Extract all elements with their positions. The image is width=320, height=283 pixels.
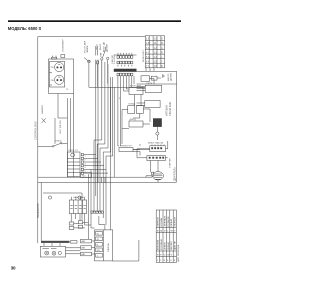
svg-text:6 R: 6 R xyxy=(146,60,150,63)
svg-text:ГОЛУБОЙ: ГОЛУБОЙ xyxy=(167,216,170,226)
svg-text:ПАНЕЛЬ: ПАНЕЛЬ xyxy=(107,242,110,252)
svg-text:ДИОД: ДИОД xyxy=(130,119,137,121)
svg-text:МОДЕЛЬ: 6500 S: МОДЕЛЬ: 6500 S xyxy=(8,26,42,31)
svg-text:Br: Br xyxy=(160,230,162,233)
svg-text:1 B: 1 B xyxy=(146,38,150,41)
svg-text:W: W xyxy=(171,231,173,233)
svg-text:ЧЕРНЫЙ: ЧЕРНЫЙ xyxy=(157,217,160,226)
svg-text:VOLT METER: VOLT METER xyxy=(60,120,62,134)
svg-text:30: 30 xyxy=(11,265,16,270)
svg-text:ОРАНЖ.: ОРАНЖ. xyxy=(163,241,166,250)
svg-text:КОРИЧН.: КОРИЧН. xyxy=(161,217,163,227)
svg-text:Gr: Gr xyxy=(167,253,170,256)
svg-text:РЕЛЕ: РЕЛЕ xyxy=(147,83,153,85)
svg-text:ФИОЛЕТ.: ФИОЛЕТ. xyxy=(170,241,173,250)
svg-text:ДВИГАТЕЛЬ: ДВИГАТЕЛЬ xyxy=(174,167,177,181)
svg-text:СВЕЧА ЗАЖ.: СВЕЧА ЗАЖ. xyxy=(169,101,172,116)
svg-text:ДАТЧИК: ДАТЧИК xyxy=(170,72,173,81)
svg-text:ЗЕЛЕНЫЙ: ЗЕЛЕНЫЙ xyxy=(163,216,166,227)
svg-text:ЦВЕТ ПР.: ЦВЕТ ПР. xyxy=(175,240,177,250)
svg-text:РЕЛЕ СТ.: РЕЛЕ СТ. xyxy=(69,150,79,152)
svg-text:ВОЛЬТМЕТР: ВОЛЬТМЕТР xyxy=(62,38,64,51)
svg-text:ВЫКЛ. МАСЛА: ВЫКЛ. МАСЛА xyxy=(148,142,163,145)
svg-text:ГЕНЕРАТОР: ГЕНЕРАТОР xyxy=(36,203,40,218)
svg-text:СТАРТЕР: СТАРТЕР xyxy=(168,158,171,168)
svg-text:БЕЛЫЙ: БЕЛЫЙ xyxy=(170,219,173,227)
svg-text:ОБМОТКА: ОБМОТКА xyxy=(73,196,84,199)
svg-text:5: 5 xyxy=(85,171,86,173)
svg-text:3: 3 xyxy=(85,163,86,165)
svg-text:КЛЮЧ: КЛЮЧ xyxy=(55,141,62,143)
svg-text:2 Br: 2 Br xyxy=(146,42,151,45)
svg-text:ЛАМПА: ЛАМПА xyxy=(86,45,89,53)
svg-text:ВЫКЛ.: ВЫКЛ. xyxy=(100,43,102,50)
svg-text:R: R xyxy=(161,51,163,54)
svg-text:КОНД.: КОНД. xyxy=(129,104,136,106)
svg-text:3 G: 3 G xyxy=(146,47,150,50)
svg-text:Ф2: Ф2 xyxy=(97,238,100,241)
svg-text:5 W: 5 W xyxy=(146,56,151,59)
svg-text:Ф1: Ф1 xyxy=(97,233,100,236)
svg-text:З.Ж.СИН.: З.Ж.СИН. xyxy=(114,55,116,64)
svg-text:CONTROL BOX: CONTROL BOX xyxy=(34,121,38,140)
svg-text:РЕЗИСТОР: РЕЗИСТОР xyxy=(120,146,132,148)
svg-text:БЛОК КОНТ.: БЛОК КОНТ. xyxy=(143,49,145,62)
svg-text:АВТ.: АВТ. xyxy=(82,253,87,256)
svg-text:ЗАЗЕМЛ.: ЗАЗЕМЛ. xyxy=(41,104,44,114)
svg-text:G: G xyxy=(161,47,163,50)
svg-text:7 Y: 7 Y xyxy=(146,65,150,68)
svg-text:АВТ.: АВТ. xyxy=(82,247,87,250)
svg-text:ЦВЕТ ПРОВОДОВ: ЦВЕТ ПРОВОДОВ xyxy=(178,244,180,262)
svg-text:ВЫКЛ. ДВ.: ВЫКЛ. ДВ. xyxy=(104,41,106,52)
svg-text:БЛОК AVR: БЛОК AVR xyxy=(130,85,141,88)
svg-text:2: 2 xyxy=(85,160,86,162)
svg-text:АВТ.: АВТ. xyxy=(82,240,87,243)
svg-text:ДАТЧИК: ДАТЧИК xyxy=(106,43,109,52)
svg-text:СЕРЫЙ: СЕРЫЙ xyxy=(167,242,170,250)
svg-text:1: 1 xyxy=(85,156,86,158)
svg-text:РОЗОВЫЙ: РОЗОВЫЙ xyxy=(160,239,163,250)
svg-text:ЖЕЛТЫЙ: ЖЕЛТЫЙ xyxy=(174,217,177,227)
svg-text:КРАСНЫЙ: КРАСНЫЙ xyxy=(157,239,160,250)
svg-text:ЧАСЫ: ЧАСЫ xyxy=(95,44,98,50)
svg-text:4: 4 xyxy=(85,167,86,169)
